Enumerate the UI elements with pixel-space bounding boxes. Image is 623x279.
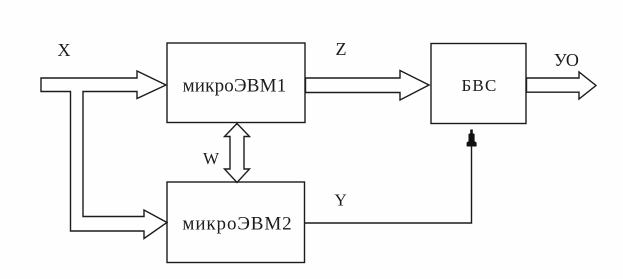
hollow arrow УО out of БВС — [527, 72, 597, 99]
svg-text:УО: УО — [554, 50, 579, 70]
net label УО — [554, 50, 579, 70]
hollow double arrow W between микроЭВМ1 and микроЭВМ2 — [225, 124, 250, 183]
svg-text:БВС: БВС — [461, 76, 497, 95]
hollow arrow Z from микроЭВМ1 to БВС — [306, 71, 430, 101]
solid arrowhead Y into bottom of БВС — [467, 130, 477, 147]
net label Y — [335, 191, 347, 210]
net label Z — [336, 39, 347, 59]
net label W — [203, 149, 220, 168]
block микроЭВМ2 — [167, 182, 305, 263]
hollow arrow X into микроЭВМ1 with branch to микроЭВМ2 — [41, 71, 167, 239]
svg-text:X: X — [58, 40, 71, 60]
block БВС — [431, 44, 526, 124]
svg-text:W: W — [203, 149, 220, 168]
svg-text:Y: Y — [335, 191, 347, 210]
svg-text:микроЭВМ2: микроЭВМ2 — [182, 214, 292, 235]
svg-text:микроЭВМ1: микроЭВМ1 — [183, 76, 287, 97]
block микроЭВМ1 — [167, 43, 305, 123]
wire Y from микроЭВМ2 to БВС — [305, 145, 472, 223]
svg-text:Z: Z — [336, 39, 347, 59]
net label X — [58, 40, 71, 60]
